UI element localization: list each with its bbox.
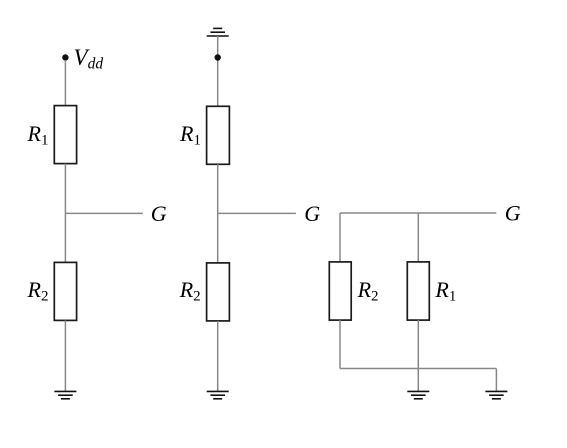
svg-text:G: G [505, 201, 521, 226]
wire Vdd to R1 [64, 60, 66, 106]
junction dot [215, 54, 221, 60]
wire top ground to R1 [217, 36, 219, 106]
svg-text:G: G [151, 201, 167, 226]
wire bottom rail [340, 368, 496, 370]
wire R2 to ground [64, 320, 66, 391]
svg-text:G: G [304, 201, 320, 226]
wire R1 to R2 [217, 164, 219, 263]
wire R2 down to bottom rail [339, 320, 341, 368]
wire R1 down to ground [417, 320, 419, 391]
wire R2 to ground [217, 321, 219, 392]
ground (top, inverted) [207, 28, 229, 36]
resistor R1 [54, 106, 76, 164]
wire node G stub [218, 212, 296, 214]
resistor R2 [207, 263, 230, 321]
wire R1 to R2 [64, 164, 66, 263]
ground (right) [485, 391, 507, 398]
resistor R2 [54, 262, 76, 320]
resistor R1 [407, 262, 429, 320]
ground (under R1) [407, 391, 429, 398]
wire top rail to G [340, 212, 496, 214]
resistor R2 [329, 262, 351, 320]
wire rail to R2 [339, 213, 341, 262]
wire rail to R1 [417, 213, 419, 262]
wire bottom rail down to right ground [495, 369, 497, 392]
wire node G stub [65, 212, 142, 214]
resistor R1 [207, 106, 230, 164]
node Vdd dot [62, 54, 68, 60]
ground (left circuit) [54, 391, 76, 398]
ground (middle circuit) [207, 391, 229, 398]
